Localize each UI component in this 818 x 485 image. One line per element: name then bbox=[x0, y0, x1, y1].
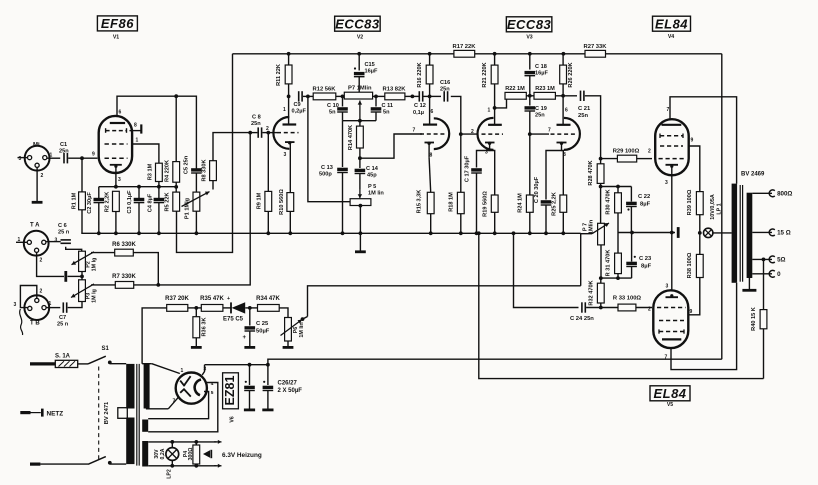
wire TA pin1 stub bbox=[16, 241, 27, 243]
resistor R17 22K bbox=[454, 50, 475, 57]
terminal 5ohm bbox=[769, 256, 775, 263]
V2b cathode bbox=[427, 142, 430, 145]
NETZ input bbox=[20, 411, 30, 414]
resistor P4 300 bbox=[195, 442, 197, 445]
V1 pin 3 cathode wire bbox=[115, 166, 117, 187]
resistor R27 33K bbox=[585, 50, 606, 57]
wire X to V2b grid bbox=[360, 134, 422, 158]
svg-text:1Mlin: 1Mlin bbox=[589, 219, 595, 234]
tube label EF86 (V1) bbox=[97, 16, 137, 31]
svg-text:EL84: EL84 bbox=[655, 16, 688, 31]
svg-text:1: 1 bbox=[488, 108, 491, 114]
node bus R19 bbox=[493, 231, 497, 235]
V3b grid dashed bbox=[551, 133, 577, 135]
wire C12 to anode node bbox=[423, 95, 430, 97]
wire TB pin2 loop bbox=[20, 286, 36, 308]
svg-text:S. 1A: S. 1A bbox=[55, 354, 71, 360]
svg-text:R11 22K: R11 22K bbox=[276, 64, 282, 86]
capacitor C12 0.1uF bbox=[418, 91, 420, 101]
svg-text:9: 9 bbox=[691, 138, 694, 144]
svg-text:C1: C1 bbox=[60, 142, 67, 148]
svg-text:6.3V Heizung: 6.3V Heizung bbox=[222, 452, 262, 459]
V3b anode plate bbox=[557, 124, 571, 126]
resistor R4 220K bbox=[175, 96, 177, 161]
node bus C20 bbox=[544, 231, 548, 235]
V4 cathode bbox=[666, 164, 679, 166]
svg-text:C 11: C 11 bbox=[382, 103, 394, 109]
svg-text:3: 3 bbox=[19, 156, 22, 162]
wire Mi pin2 to ground bbox=[36, 167, 38, 201]
capacitor C15 16uF bbox=[358, 54, 360, 71]
wire P7 bottom bbox=[600, 245, 602, 278]
V1 pin 8 stub bbox=[130, 130, 142, 132]
resistor R21 220K bbox=[494, 54, 496, 65]
node R13/C12 bbox=[411, 95, 415, 99]
svg-text:2: 2 bbox=[648, 149, 651, 155]
switch S1 bottom blade bbox=[88, 457, 106, 465]
transformer BV2469 primary bbox=[732, 184, 738, 283]
svg-text:R26 220K: R26 220K bbox=[568, 62, 574, 87]
P5 wiper out bbox=[359, 204, 363, 208]
resistor R28 470K bbox=[600, 159, 602, 164]
node bus P1 bbox=[195, 231, 199, 235]
BV2471 primary tap bbox=[118, 408, 128, 419]
node bus C13 bbox=[341, 231, 345, 235]
triode V2b bbox=[434, 118, 449, 149]
resistor R35 47K bbox=[201, 305, 223, 312]
wire V1 anode to C5/R4 bbox=[117, 96, 196, 169]
svg-text:C7: C7 bbox=[59, 315, 66, 321]
svg-text:C 22: C 22 bbox=[638, 194, 650, 200]
node bus R2 bbox=[114, 231, 118, 235]
svg-text:R39 100Ω: R39 100Ω bbox=[687, 189, 693, 215]
tube V6 EZ81 bbox=[176, 373, 207, 404]
transformer BV2469 secondary bbox=[747, 193, 753, 278]
svg-text:2 X 50µF: 2 X 50µF bbox=[278, 388, 303, 394]
wire V4 anode to OT primary top bbox=[670, 97, 737, 184]
wire R6 right bbox=[133, 253, 158, 285]
wire mix to C8 riser bbox=[158, 133, 250, 285]
svg-text:R23 1M: R23 1M bbox=[535, 86, 555, 92]
V2a cathode bbox=[288, 141, 291, 144]
transformer BV2471 primary bbox=[126, 364, 134, 409]
resistor R11 22K bbox=[288, 54, 290, 65]
triode V3b bbox=[564, 118, 580, 150]
svg-text:C 6: C 6 bbox=[58, 223, 67, 229]
wire P2 wiper to R6 bbox=[91, 252, 115, 254]
node R22/R23/C18/C19 bbox=[528, 94, 532, 98]
svg-text:R2 2,2K: R2 2,2K bbox=[105, 192, 111, 213]
resistor R6 330K bbox=[115, 249, 134, 256]
node U bbox=[374, 95, 378, 99]
svg-text:50µF: 50µF bbox=[256, 329, 270, 335]
wire feedback line bbox=[308, 286, 581, 317]
svg-text:25n: 25n bbox=[535, 113, 545, 119]
node bus C3 bbox=[137, 231, 141, 235]
wire V5 cathode to ground line bbox=[671, 233, 673, 291]
capacitor C16 25n bbox=[430, 95, 441, 97]
wire HV top to EZ81 pin1 bbox=[142, 363, 152, 365]
svg-text:7: 7 bbox=[413, 128, 416, 134]
svg-text:C 17 30µF: C 17 30µF bbox=[465, 155, 471, 182]
svg-text:25n: 25n bbox=[578, 113, 588, 119]
svg-text:5: 5 bbox=[211, 390, 214, 396]
svg-text:R 31 470K: R 31 470K bbox=[606, 250, 612, 277]
node anode branch R4 bbox=[174, 94, 178, 98]
svg-text:R16 220K: R16 220K bbox=[417, 62, 423, 87]
P5 ground stub bbox=[359, 233, 361, 251]
node bus C2 bbox=[97, 231, 101, 235]
P7 wiper arrow bbox=[359, 101, 361, 121]
svg-text:P1 1Mlg: P1 1Mlg bbox=[185, 197, 191, 219]
ground Mi bbox=[32, 201, 43, 204]
svg-text:8µF: 8µF bbox=[640, 202, 651, 208]
resistor R14 470K bbox=[359, 121, 361, 126]
ground secondary bar bbox=[742, 289, 756, 292]
terminal 15ohm bbox=[769, 229, 775, 236]
svg-text:2: 2 bbox=[648, 307, 651, 313]
svg-text:R5 22K: R5 22K bbox=[165, 193, 171, 212]
node bus R24 bbox=[528, 231, 532, 235]
svg-text:R38 100Ω: R38 100Ω bbox=[687, 252, 693, 278]
svg-text:6: 6 bbox=[431, 109, 434, 115]
svg-text:R7 330K: R7 330K bbox=[112, 274, 136, 280]
wire TA pin2 ground bbox=[37, 252, 64, 276]
svg-text:C 21: C 21 bbox=[578, 106, 591, 112]
V1 cathode bbox=[110, 164, 122, 166]
V5 g2 dashed bbox=[659, 320, 684, 322]
svg-text:7: 7 bbox=[667, 107, 670, 113]
capacitor C25 50uF bbox=[249, 308, 251, 326]
wire 5 tap bbox=[752, 258, 772, 260]
svg-text:10V/0,05A: 10V/0,05A bbox=[710, 194, 716, 220]
svg-text:1: 1 bbox=[136, 138, 139, 144]
svg-text:5Ω: 5Ω bbox=[777, 257, 785, 264]
svg-text:C9: C9 bbox=[294, 102, 301, 108]
wire C16 to V3a grid bbox=[451, 96, 461, 134]
wire to P5 bbox=[308, 96, 350, 201]
svg-text:ECC83: ECC83 bbox=[335, 16, 380, 31]
capacitor C22 8uF bbox=[630, 187, 632, 202]
node bus C4 bbox=[157, 231, 161, 235]
V3a anode plate bbox=[488, 124, 502, 126]
node bus C17 bbox=[475, 231, 479, 235]
wire lamp to primary bbox=[713, 232, 732, 234]
node R21 top bbox=[493, 52, 497, 56]
svg-text:3: 3 bbox=[284, 152, 287, 158]
svg-text:BV 2469: BV 2469 bbox=[741, 172, 765, 178]
svg-text:C 24 25n: C 24 25n bbox=[570, 316, 594, 322]
wire P6 bottom bbox=[287, 341, 289, 347]
TB shield squiggle bbox=[20, 309, 23, 335]
svg-text:+: + bbox=[227, 296, 230, 302]
svg-text:0: 0 bbox=[777, 271, 781, 278]
svg-text:R28 470K: R28 470K bbox=[588, 160, 594, 185]
svg-text:T A: T A bbox=[30, 223, 40, 229]
svg-text:3: 3 bbox=[665, 180, 668, 186]
V5 cathode bbox=[666, 296, 679, 298]
resistor R15 3.3K bbox=[428, 143, 430, 157]
svg-text:25n: 25n bbox=[440, 87, 450, 93]
svg-text:C 20 30µF: C 20 30µF bbox=[534, 176, 540, 203]
V2a anode plate bbox=[283, 123, 297, 125]
resistor R2 2.2K bbox=[113, 191, 120, 211]
node V1 grid bbox=[80, 156, 84, 160]
wire anode to R22 bbox=[495, 99, 507, 108]
svg-text:R15 3,3K: R15 3,3K bbox=[417, 190, 423, 214]
svg-text:T B: T B bbox=[30, 321, 40, 327]
wire P7vol top bbox=[600, 187, 602, 224]
wire C21 to R28/R29 bbox=[585, 96, 601, 159]
P5 wiper arrow down bbox=[359, 189, 361, 198]
svg-text:R22 1M: R22 1M bbox=[505, 86, 525, 92]
node bus R10 bbox=[288, 231, 292, 235]
resistor R10 560 bbox=[289, 143, 291, 193]
tube V5 EL84 envelope bbox=[653, 290, 688, 348]
V5 g1 dashed bbox=[657, 307, 686, 309]
triode V3a bbox=[478, 118, 494, 150]
svg-text:0,2A: 0,2A bbox=[160, 448, 166, 459]
resistor R8 330K bbox=[212, 181, 214, 190]
svg-text:5n: 5n bbox=[329, 110, 336, 116]
node C26a bbox=[248, 363, 252, 367]
svg-text:1: 1 bbox=[283, 107, 286, 113]
svg-text:45p: 45p bbox=[367, 173, 377, 179]
6.3V Heizung arrow bbox=[203, 450, 210, 457]
resistor R7 330K bbox=[115, 282, 133, 289]
node V3a grid bbox=[459, 132, 463, 136]
wire EZ81 pins 4/5 heater bbox=[148, 383, 218, 432]
capacitor C6 25n bbox=[61, 239, 71, 241]
svg-text:8: 8 bbox=[430, 153, 433, 159]
svg-text:R8 330K: R8 330K bbox=[202, 159, 208, 181]
ground cathode bar bbox=[677, 227, 680, 238]
svg-text:R13 82K: R13 82K bbox=[383, 87, 407, 93]
resistor R13 82K bbox=[385, 93, 405, 100]
svg-text:R34 47K: R34 47K bbox=[256, 296, 280, 302]
svg-text:500p: 500p bbox=[319, 172, 332, 178]
tube V4 EL84 envelope bbox=[655, 119, 689, 175]
svg-text:NETZ: NETZ bbox=[47, 410, 64, 417]
resistor R23 1M bbox=[534, 92, 555, 99]
svg-text:R32 470K: R32 470K bbox=[589, 280, 595, 305]
V3b cathode bbox=[560, 142, 563, 145]
svg-text:1: 1 bbox=[49, 301, 52, 307]
node V3b grid bbox=[528, 132, 532, 136]
svg-text:2: 2 bbox=[41, 173, 44, 179]
node cathode bbox=[114, 185, 118, 189]
svg-text:R10 560Ω: R10 560Ω bbox=[279, 189, 285, 215]
svg-text:R14 470K: R14 470K bbox=[348, 125, 354, 150]
transformer BV2471 rect heater winding bbox=[142, 420, 148, 432]
node diode/C25/R34 bbox=[248, 306, 252, 310]
wire heater lead top bbox=[148, 441, 216, 443]
svg-text:S1: S1 bbox=[102, 346, 110, 352]
resistor R25 2.2K bbox=[562, 151, 564, 196]
capacitor C7 25n bbox=[62, 302, 64, 312]
svg-text:V2: V2 bbox=[357, 35, 363, 41]
node C9/R12/P5 branch bbox=[306, 95, 310, 99]
wire C6 to P2 bbox=[66, 247, 82, 251]
svg-text:EL84: EL84 bbox=[653, 386, 686, 401]
node R23/R26/V3b anode bbox=[561, 94, 565, 98]
P7 wiper bbox=[581, 233, 592, 235]
node P2/P3 ground bbox=[80, 275, 84, 279]
P1 wiper arrow bbox=[182, 192, 210, 207]
node bus R9 bbox=[266, 231, 270, 235]
svg-text:C3 0,1µF: C3 0,1µF bbox=[127, 190, 133, 214]
tube label EL84 (V4) bbox=[653, 16, 691, 31]
resistor R1 1M bbox=[81, 158, 83, 192]
tube V1 EF86 envelope bbox=[99, 116, 132, 173]
terminal 0 bbox=[769, 270, 775, 277]
svg-text:C15: C15 bbox=[365, 62, 375, 68]
V1 g1 dashed bbox=[105, 157, 128, 159]
svg-text:BV 2471: BV 2471 bbox=[104, 401, 110, 424]
wire B+ bottom line bbox=[205, 359, 722, 365]
node 5ohm/R40 bbox=[762, 258, 766, 262]
capacitor C2 30uF bbox=[98, 187, 100, 198]
capacitor C14 45p bbox=[359, 158, 361, 168]
svg-text:R9 1M: R9 1M bbox=[257, 192, 263, 209]
wire HV bottom to EZ81 pin7 bbox=[147, 408, 169, 410]
wire main bus bbox=[81, 232, 580, 234]
svg-text:6: 6 bbox=[565, 108, 568, 114]
node C15 top bbox=[357, 52, 361, 56]
V2b anode plate bbox=[423, 123, 437, 125]
wire 0 tap bbox=[752, 273, 772, 275]
capacitor C23 8uF bbox=[631, 233, 633, 262]
wire C24 drop bbox=[514, 233, 579, 307]
wire R31/C23 bottom bbox=[601, 277, 632, 279]
wire heater lead bottom bbox=[148, 465, 216, 467]
connector TA bbox=[24, 231, 49, 256]
svg-text:C 8: C 8 bbox=[252, 115, 261, 121]
node R28/R29 bbox=[599, 157, 603, 161]
wire V4 cathode to ground line bbox=[671, 166, 673, 175]
svg-text:R30 470K: R30 470K bbox=[606, 189, 612, 214]
connector TB bbox=[24, 295, 49, 320]
svg-text:R3 1M: R3 1M bbox=[148, 163, 154, 180]
capacitor C18 16uF bbox=[529, 54, 531, 70]
resistor R36 3K bbox=[195, 308, 197, 317]
ground P6 bbox=[283, 346, 294, 349]
node bus R15 bbox=[429, 231, 433, 235]
svg-text:25 n: 25 n bbox=[58, 230, 70, 236]
V1 pin 1 wire to R3 bbox=[132, 144, 159, 163]
resistor R32 470K bbox=[600, 278, 602, 283]
wire R28/R30/C22 top bbox=[601, 186, 632, 188]
P3 wiper arrow bbox=[71, 284, 94, 298]
svg-text:1: 1 bbox=[181, 368, 184, 374]
svg-text:C 23: C 23 bbox=[639, 256, 652, 262]
tube label ECC83 (V3) bbox=[506, 17, 551, 32]
wire 15 tap bbox=[752, 231, 772, 233]
wire TA pin3 to C6 bbox=[46, 241, 61, 243]
svg-text:6: 6 bbox=[119, 110, 122, 116]
wire to ground bar bbox=[68, 275, 83, 277]
svg-text:7: 7 bbox=[548, 128, 551, 134]
resistor R18 1M bbox=[460, 134, 462, 192]
svg-text:C4 8µF: C4 8µF bbox=[148, 193, 154, 212]
resistor R31 470K bbox=[617, 233, 619, 254]
cathode line y186.7 bbox=[99, 186, 176, 188]
capacitor C9 0.2uF bbox=[298, 91, 300, 101]
wire C8 to grid bbox=[263, 132, 278, 134]
terminal 800ohm bbox=[769, 190, 775, 197]
ground C25 bbox=[244, 346, 255, 349]
svg-text:R37 20K: R37 20K bbox=[165, 296, 189, 302]
resistor R40 15K bbox=[763, 259, 765, 309]
resistor R39 100 bbox=[696, 192, 703, 215]
svg-text:EF86: EF86 bbox=[101, 16, 134, 31]
wire B+ rail left drop bbox=[177, 54, 233, 253]
resistor R33 100 bbox=[618, 304, 636, 311]
svg-text:LP2: LP2 bbox=[167, 469, 173, 479]
svg-text:3: 3 bbox=[14, 302, 17, 308]
V4 g2 dashed bbox=[660, 145, 683, 147]
wire Mi pin3 stub bbox=[18, 157, 28, 159]
wire C8 left bbox=[250, 132, 257, 134]
wire B+ riser right bbox=[721, 54, 723, 359]
svg-text:C 25: C 25 bbox=[256, 321, 269, 327]
wire V5 g2 to R38 bbox=[688, 278, 700, 315]
svg-text:1M lin: 1M lin bbox=[299, 322, 305, 337]
capacitor C21 25n bbox=[580, 91, 582, 101]
svg-text:3: 3 bbox=[55, 238, 58, 244]
svg-text:C26/27: C26/27 bbox=[278, 381, 298, 387]
wire TB pin1 to C7 bbox=[46, 307, 60, 309]
node R8/C8/feedback bbox=[248, 131, 252, 135]
svg-text:8: 8 bbox=[134, 123, 137, 129]
P6 wiper arrow bbox=[281, 320, 303, 336]
transformer BV2471 heater winding bbox=[142, 441, 148, 467]
svg-text:R18 1M: R18 1M bbox=[449, 192, 455, 212]
potentiometer P5 1Mlin bbox=[350, 199, 371, 206]
svg-text:25n: 25n bbox=[59, 149, 69, 155]
capacitor C24 25n bbox=[581, 302, 583, 312]
svg-text:1M lg: 1M lg bbox=[92, 289, 98, 303]
tube label EL84 (V5) bbox=[650, 386, 690, 401]
wire C7 to P3 bottom bbox=[68, 302, 82, 308]
svg-text:+: + bbox=[243, 335, 247, 341]
svg-text:8µF: 8µF bbox=[641, 264, 652, 270]
svg-text:V4: V4 bbox=[668, 34, 674, 40]
potentiometer P2 1Mlg bbox=[79, 251, 86, 271]
transformer BV2471 HV secondary bbox=[144, 364, 150, 409]
node R16 top bbox=[428, 52, 432, 56]
tube label EZ81 (V6) rotated bbox=[223, 373, 239, 409]
svg-text:R12 56K: R12 56K bbox=[313, 87, 337, 93]
wire C24 to R33 bbox=[586, 307, 618, 309]
lamp LP1 10V/0.05A bbox=[704, 228, 713, 237]
EZ81 cathode crescent bbox=[195, 380, 201, 396]
potentiometer P3 1Mlg bbox=[81, 276, 83, 279]
wire V5 anode to OT primary bottom bbox=[671, 283, 737, 370]
svg-text:EZ81: EZ81 bbox=[223, 376, 237, 406]
svg-text:3: 3 bbox=[666, 284, 669, 290]
potentiometer P7 1Mlin (volume) bbox=[598, 223, 605, 245]
svg-text:C 13: C 13 bbox=[321, 165, 333, 171]
svg-text:V1: V1 bbox=[113, 35, 119, 41]
wire EZ81 pin3 B+ out bbox=[202, 365, 204, 375]
wire bus end drop to feedback bbox=[580, 233, 582, 285]
svg-text:C 12: C 12 bbox=[414, 103, 426, 109]
V1 g3 dashed bbox=[105, 143, 128, 145]
resistor R16 220K bbox=[429, 54, 431, 65]
V1 g2 dashed bbox=[106, 130, 127, 132]
wire P3 wiper to R7 bbox=[91, 284, 115, 286]
